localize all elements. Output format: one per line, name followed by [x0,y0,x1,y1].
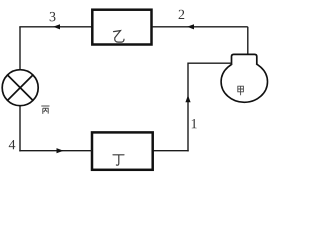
lamp 丙: circle [2,70,38,106]
wire: vertical segment 1 [187,63,189,152]
label 3 [50,12,56,21]
arrow on wire 4 (pointing right) [57,148,64,153]
wire: bottom-right horizontal [154,150,189,152]
bulb 甲: neck cap [232,54,257,64]
lamp 丙: X cross stroke 2 [8,75,33,100]
label 1 [192,119,197,128]
wire: top-right horizontal (segment 2) [152,26,248,28]
lamp 丙: X cross stroke 1 [8,75,33,100]
wire: right vertical into bulb neck [247,27,249,55]
component box U2 (丁) [92,132,153,169]
component box U1 (乙) [92,10,151,45]
arrow on wire 2 (pointing left) [187,24,194,29]
bulb 甲: glass ellipse [221,61,267,102]
label 乙 inside box [114,31,125,42]
wire: left vertical lower segment [19,106,21,152]
label 4 [9,140,16,149]
wire: bottom-left horizontal (segment 4) [19,150,92,152]
label 丁 inside box [113,155,124,165]
arrow on wire 3 (pointing left) [53,24,60,29]
wire: horizontal from bulb neck to vertical segment 1 [188,62,232,64]
label 甲 inside bulb [238,86,244,95]
label 2 [179,10,185,19]
label 丙 beside lamp [41,106,49,114]
wire: left vertical upper segment [19,27,21,70]
arrow on wire 1 (pointing up) [185,95,190,102]
wire: top-left horizontal (segment 3) [19,26,91,28]
